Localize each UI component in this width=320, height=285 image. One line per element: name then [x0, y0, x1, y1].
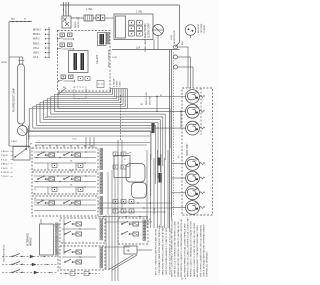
svg-text:GY-2: GY-2: [33, 57, 39, 59]
svg-text:1 YEL/W: 1 YEL/W: [114, 79, 116, 87]
svg-text:GROUND: GROUND: [201, 23, 203, 33]
svg-text:SCREW: SCREW: [204, 25, 206, 33]
svg-text:L1A: L1A: [136, 47, 141, 50]
svg-text:OVEN LAMP: OVEN LAMP: [144, 39, 147, 52]
svg-text:WIRE FROM SWITCH LIGHTING CIRC: WIRE FROM SWITCH LIGHTING CIRCUIT B4 TAP…: [162, 225, 165, 275]
svg-text:BK/W-2: BK/W-2: [33, 30, 42, 32]
svg-text:FLUORESCENT LAMP: FLUORESCENT LAMP: [13, 88, 16, 112]
svg-text:14 R: 14 R: [112, 57, 117, 59]
svg-text:SWITCH LIGHTING HEATER 2 CONN: SWITCH LIGHTING HEATER 2 CONN TO L1 SIDE: [165, 227, 168, 275]
svg-text:ALL WIRING MUST CONFORM TO NAT: ALL WIRING MUST CONFORM TO NATIONAL CODE…: [196, 225, 199, 277]
svg-text:16010463 REV A: 16010463 REV A: [3, 245, 6, 262]
svg-text:V/W-1: V/W-1: [33, 53, 40, 55]
svg-text:BLK: BLK: [182, 41, 184, 45]
svg-text:USE COPPER CONDUCTORS ONLY 60C: USE COPPER CONDUCTORS ONLY 60C MIN RATIN…: [199, 224, 202, 277]
svg-text:CHECK GROUND PATH BEFORE OPERA: CHECK GROUND PATH BEFORE OPERATING RANGE: [203, 224, 206, 277]
svg-text:1 BK-10: 1 BK-10: [1, 151, 9, 153]
svg-text:ALTERNATE: ALTERNATE: [27, 232, 30, 246]
svg-text:BLK: BLK: [11, 19, 16, 21]
svg-text:GRN/Y: GRN/Y: [1, 62, 8, 64]
svg-text:RED CLOCK: RED CLOCK: [146, 92, 148, 105]
svg-text:BK/R-1: BK/R-1: [33, 34, 41, 36]
svg-text:DOOR: DOOR: [75, 21, 77, 28]
svg-text:CLOCK CONT: CLOCK CONT: [149, 22, 151, 38]
svg-text:RELAYS: RELAYS: [96, 54, 99, 64]
svg-text:L1 HTR BLK CLK TO SURFACE UNIT: L1 HTR BLK CLK TO SURFACE UNIT SW TERM L…: [174, 221, 177, 277]
svg-text:TIGHTEN ALL TERMINALS: TIGHTEN ALL TERMINALS: [206, 251, 209, 277]
svg-text:WIRING: WIRING: [31, 237, 33, 246]
svg-text:5 W-12: 5 W-12: [1, 168, 9, 170]
svg-text:SW LINE: SW LINE: [150, 95, 152, 105]
svg-text:SURFACE IGNITOR SWITCH CONTACT: SURFACE IGNITOR SWITCH CONTACTS SHOWN IN…: [177, 221, 180, 277]
svg-text:W/R-2: W/R-2: [33, 39, 40, 41]
svg-text:7 GY-12: 7 GY-12: [1, 176, 9, 178]
svg-text:Y/R-2: Y/R-2: [33, 48, 40, 50]
svg-text:2 W-10: 2 W-10: [1, 155, 9, 157]
svg-text:14 GA: 14 GA: [153, 208, 156, 214]
svg-text:SERVICE CORD OR CABLE CONN PER: SERVICE CORD OR CABLE CONN PER LOCAL COD…: [187, 217, 190, 277]
svg-text:KEY: LIT = SWITCH LIGHT PILOT: KEY: LIT = SWITCH LIGHT PILOT LAMP ON SW: [155, 229, 158, 275]
svg-text:WITH SWITCH CONTACTS CLOSED HE: WITH SWITCH CONTACTS CLOSED HEATER CIRCU…: [180, 219, 183, 277]
svg-text:ALL ROD: ALL ROD: [197, 24, 200, 33]
svg-text:RECEPTACLE: RECEPTACLE: [173, 30, 176, 44]
svg-text:ELECTRONIC: ELECTRONIC: [145, 23, 147, 38]
svg-text:4 BK-12: 4 BK-12: [1, 164, 9, 166]
svg-text:ALT HEATER WIRING FOR 8 IN. 24: ALT HEATER WIRING FOR 8 IN. 2400W SURFAC…: [183, 223, 186, 277]
svg-text:HEATER 2 CONN TO L2 SIDE OF LI: HEATER 2 CONN TO L2 SIDE OF LINE FOR 240…: [193, 223, 196, 277]
svg-text:W: W: [30, 144, 32, 146]
svg-text:6 OR-10: 6 OR-10: [1, 172, 10, 174]
svg-text:1 BLK: 1 BLK: [11, 141, 17, 143]
svg-text:4B: 4B: [127, 250, 130, 253]
svg-text:I. DISCONNECT WIRE FROM SWITCH: I. DISCONNECT WIRE FROM SWITCH TERM 2 AN…: [158, 225, 161, 275]
svg-text:120V: 120V: [171, 35, 173, 40]
svg-text:1 YEL: 1 YEL: [86, 8, 93, 11]
svg-text:3 RED: 3 RED: [117, 80, 119, 87]
svg-text:5 BLK: 5 BLK: [120, 81, 122, 87]
svg-text:SERVICE CORD TO TERMINAL BLOCK: SERVICE CORD TO TERMINAL BLOCK TORQUE 20…: [190, 221, 193, 277]
svg-text:R/W-1: R/W-1: [33, 43, 40, 45]
svg-text:2 YEL: 2 YEL: [136, 11, 143, 14]
svg-text:Y-10: Y-10: [72, 139, 77, 141]
svg-text:W: W: [160, 95, 162, 97]
svg-text:ELEC. CONTROL: ELEC. CONTROL: [109, 49, 111, 67]
svg-text:6 - 4: 6 - 4: [181, 277, 187, 281]
svg-text:SURF. UNIT: SURF. UNIT: [187, 143, 189, 156]
svg-text:3 R-12: 3 R-12: [1, 159, 8, 161]
svg-text:NOTES: 1. DISCONNECT POWER BEF: NOTES: 1. DISCONNECT POWER BEFORE SERVIC…: [172, 217, 174, 277]
